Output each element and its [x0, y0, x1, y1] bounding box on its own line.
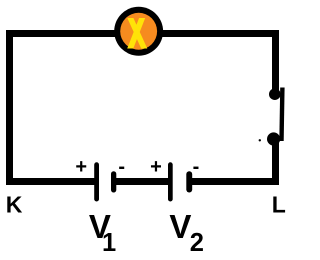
- lamp inner orange: [120, 13, 157, 50]
- svg-text:L: L: [272, 192, 286, 218]
- battery V1: [75, 156, 125, 202]
- svg-text:-: -: [118, 156, 125, 178]
- battery V2: [150, 156, 199, 202]
- svg-text:+: +: [150, 156, 162, 178]
- svg-text:V: V: [169, 208, 191, 245]
- switch bottom contact dot: [267, 132, 280, 145]
- wire: left vertical: [6, 30, 13, 185]
- svg-text:2: 2: [190, 229, 204, 257]
- wire: right vertical lower (from switch): [272, 137, 279, 185]
- wire: bottom left segment (K to battery V1): [6, 178, 95, 185]
- battery V2 long plate (+): [168, 162, 173, 201]
- wire: right vertical upper (to switch): [272, 30, 279, 95]
- stray speck near switch: [259, 139, 261, 141]
- switch top contact dot: [269, 88, 281, 100]
- battery V1 long plate (+): [94, 162, 99, 201]
- battery V2 short plate (-): [186, 171, 192, 192]
- svg-text:-: -: [193, 156, 200, 178]
- switch S1 (closed): [267, 88, 285, 146]
- lamp X1 (bulb with X): [114, 7, 163, 56]
- label V2: [169, 208, 203, 257]
- label V1: [89, 208, 116, 257]
- lamp outer ring: [114, 7, 163, 56]
- svg-text:+: +: [75, 156, 87, 178]
- switch lever: [279, 88, 284, 142]
- battery V1 short plate (-): [111, 171, 116, 192]
- wire: bottom right segment (V2 to L): [192, 178, 280, 185]
- svg-text:1: 1: [102, 229, 116, 257]
- wire: top horizontal: [6, 30, 279, 37]
- lamp X glyph: [127, 18, 147, 49]
- wire: bottom middle segment (between V1 and V2): [116, 178, 170, 185]
- svg-text:K: K: [6, 192, 23, 218]
